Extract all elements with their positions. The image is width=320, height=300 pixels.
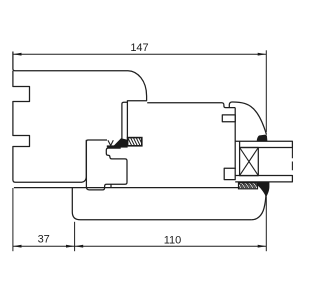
svg-text:37: 37 <box>38 234 50 246</box>
svg-text:147: 147 <box>130 42 148 54</box>
svg-text:110: 110 <box>164 235 182 247</box>
